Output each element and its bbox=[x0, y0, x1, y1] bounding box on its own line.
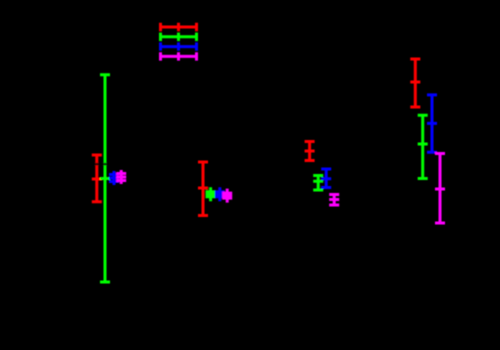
errorbar G1 (green, cluster 1, tall) bbox=[100, 75, 110, 282]
errorbar B2 (blue, cluster 2, tiny) bbox=[215, 187, 225, 201]
errorbar B4 (blue, cluster 4) bbox=[427, 95, 437, 152]
errorbar M2 (magenta, cluster 2, tiny) bbox=[222, 189, 232, 203]
errorbar R3 (red, cluster 3) bbox=[305, 142, 315, 161]
legend sample red series bbox=[160, 23, 197, 31]
errorbar R4 (red, cluster 4) bbox=[410, 59, 420, 107]
legend sample green series bbox=[160, 33, 197, 41]
errorbar R1 (red, cluster 1) bbox=[92, 155, 102, 202]
errorbar G4 (green, cluster 4) bbox=[418, 115, 428, 178]
errorbar G3 (green, cluster 3) bbox=[313, 176, 323, 191]
errorbar M4 (magenta, cluster 4) bbox=[435, 154, 445, 224]
legend sample blue series bbox=[160, 42, 197, 50]
errorbar B1 (blue, cluster 1, tiny) bbox=[109, 171, 119, 185]
errorbar B3 (blue, cluster 3) bbox=[321, 169, 331, 188]
legend sample magenta series bbox=[160, 52, 197, 60]
errorbar M3 (magenta, cluster 3) bbox=[329, 195, 339, 206]
errorbar G2 (green, cluster 2, tiny) bbox=[206, 187, 216, 201]
errorbar M1 (magenta, cluster 1, tiny) bbox=[116, 170, 126, 184]
dark band artifact over cluster 1 bbox=[89, 163, 111, 165]
errorbar R2 (red, cluster 2) bbox=[198, 162, 208, 216]
